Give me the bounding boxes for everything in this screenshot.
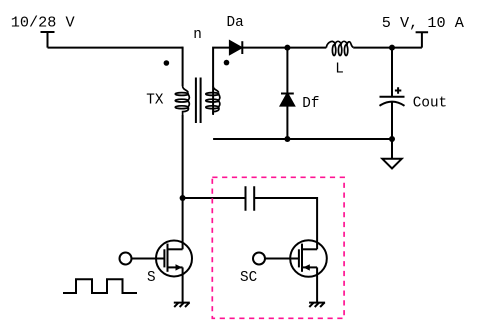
ground S (hatched) bbox=[174, 303, 190, 307]
wire clamp junction to capacitor bbox=[183, 197, 246, 199]
node Cout bottom junction bbox=[389, 136, 395, 142]
wire gate SC bbox=[265, 258, 299, 260]
gate drive square wave bbox=[63, 279, 137, 293]
diode Df bbox=[281, 48, 294, 139]
wire to output ground bbox=[391, 139, 393, 159]
transformer TX primary winding bbox=[175, 86, 189, 115]
inductor L bbox=[326, 41, 353, 55]
gate terminal circle S bbox=[120, 253, 132, 265]
svg-text:L: L bbox=[335, 62, 344, 78]
dashed clamp box bbox=[212, 177, 344, 318]
transformer TX secondary winding bbox=[206, 86, 220, 115]
wire primary vertical top bbox=[182, 47, 184, 86]
secondary polarity dot bbox=[224, 60, 230, 66]
svg-text:Da: Da bbox=[227, 15, 245, 31]
svg-text:Df: Df bbox=[302, 96, 319, 112]
svg-text:TX: TX bbox=[146, 93, 164, 109]
ground SC (hatched) bbox=[309, 303, 325, 307]
capacitor Cout bbox=[380, 48, 405, 139]
transistor S (MOSFET) bbox=[156, 241, 192, 277]
wire node to inductor bbox=[287, 47, 326, 49]
wire S source to ground bbox=[182, 267, 184, 302]
wire capacitor to SC drain bbox=[254, 198, 317, 249]
svg-text:Cout: Cout bbox=[413, 95, 447, 111]
wire Da cathode to Df node bbox=[242, 47, 287, 49]
node clamp junction bbox=[180, 195, 186, 201]
wire primary vertical to switch S drain bbox=[182, 115, 184, 249]
transistor SC (MOSFET) bbox=[290, 240, 327, 277]
diode Da bbox=[230, 41, 242, 54]
wire input rail to transformer primary bbox=[48, 47, 183, 49]
wire bottom rail bbox=[213, 138, 392, 140]
svg-text:S: S bbox=[147, 270, 156, 286]
svg-text:5 V, 10 A: 5 V, 10 A bbox=[382, 14, 465, 32]
svg-text:10/28 V: 10/28 V bbox=[11, 13, 76, 31]
input terminal 10/28 V bbox=[41, 32, 55, 48]
svg-text:SC: SC bbox=[240, 270, 257, 286]
primary polarity dot bbox=[164, 60, 170, 66]
node Df bottom junction bbox=[284, 136, 290, 142]
wire gate S bbox=[132, 258, 165, 260]
wire secondary top to Da bbox=[213, 48, 230, 114]
ground output (open triangle) bbox=[382, 159, 401, 169]
output terminal 5 V, 10 A bbox=[416, 32, 429, 47]
svg-text:n: n bbox=[193, 27, 202, 43]
node Df top junction bbox=[284, 45, 290, 51]
wire SC source to ground bbox=[316, 267, 318, 302]
plus sign Cout bbox=[395, 87, 401, 93]
clamp capacitor bbox=[246, 186, 255, 211]
gate terminal circle SC bbox=[253, 253, 265, 265]
transformer core bbox=[196, 78, 201, 124]
node L-Cout junction bbox=[389, 45, 395, 51]
wire inductor to output node bbox=[353, 47, 422, 49]
